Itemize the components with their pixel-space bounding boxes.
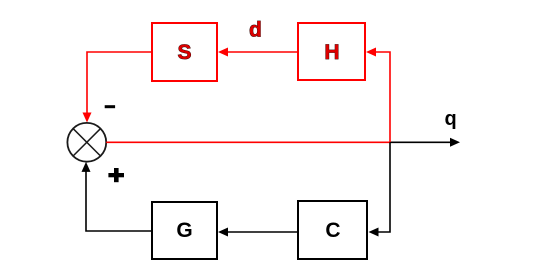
wire G to summing junction — [82, 162, 153, 231]
summing junction — [67, 123, 106, 162]
block S — [152, 23, 217, 81]
block H — [298, 23, 365, 80]
svg-text:q: q — [445, 108, 457, 130]
svg-text:C: C — [325, 219, 340, 242]
block G — [152, 202, 217, 259]
svg-text:G: G — [176, 219, 192, 242]
wire S output to summing junction — [83, 52, 153, 123]
block C — [298, 201, 367, 259]
plus sign — [108, 168, 124, 182]
svg-text:S: S — [177, 41, 191, 64]
wire C to G — [218, 228, 298, 237]
minus sign — [105, 105, 115, 108]
wire output arrow q — [390, 138, 460, 147]
svg-text:d: d — [249, 19, 262, 42]
wire summing junction to output node (red segment) — [106, 141, 390, 143]
wire node down to C input — [369, 142, 391, 236]
svg-text:H: H — [324, 41, 339, 64]
wire H to S — [218, 48, 298, 57]
wire feedback node to H input — [366, 48, 390, 143]
